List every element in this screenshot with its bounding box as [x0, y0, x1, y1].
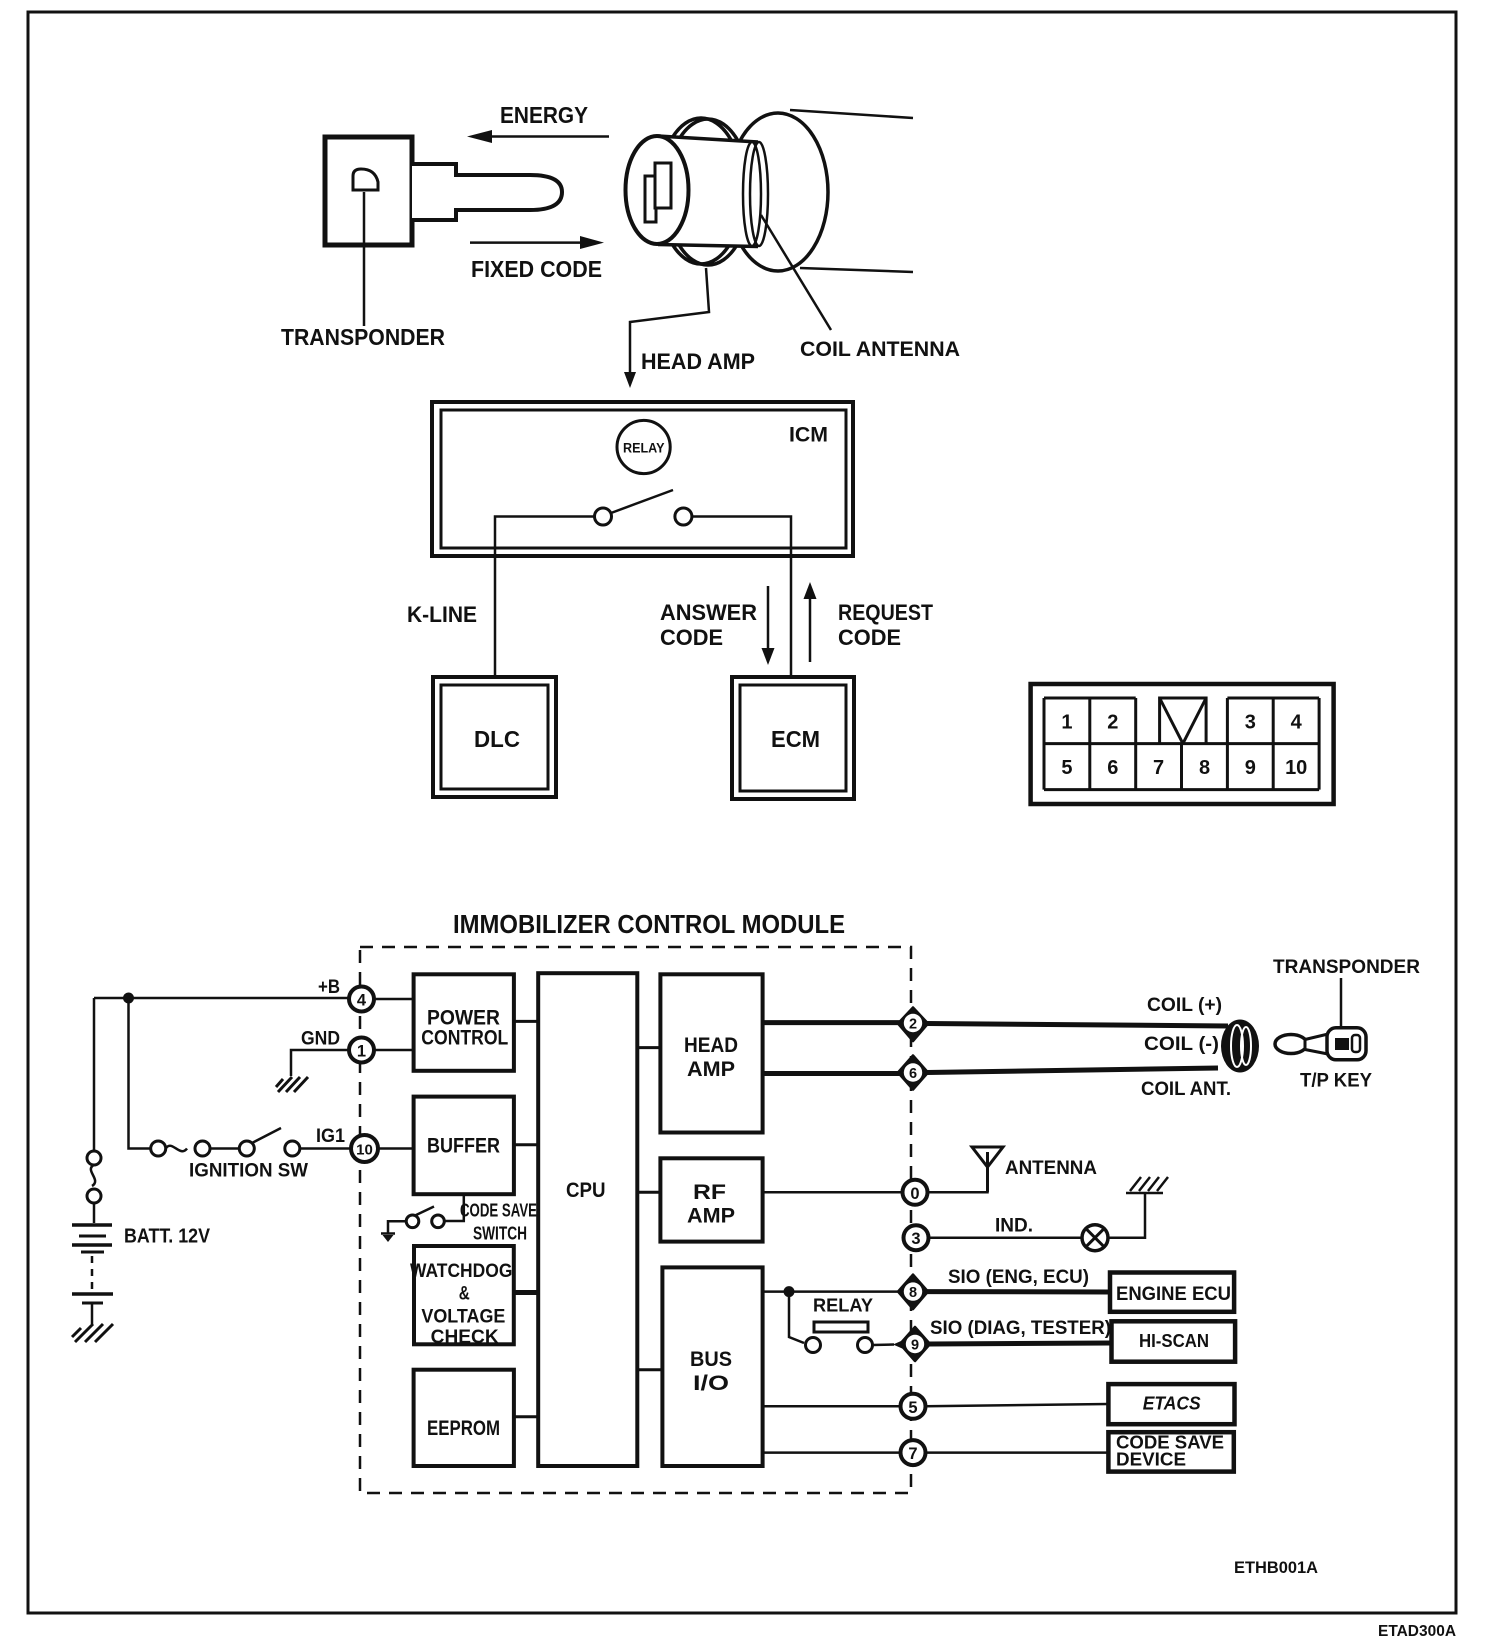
- svg-text:VOLTAGE: VOLTAGE: [421, 1307, 505, 1328]
- wire head amp to pin2: [763, 1020, 900, 1025]
- svg-text:REQUEST: REQUEST: [838, 600, 933, 625]
- wire bus io to pin7: [763, 1451, 901, 1454]
- svg-text:RF: RF: [693, 1181, 726, 1204]
- svg-text:COIL (-): COIL (-): [1144, 1033, 1219, 1055]
- svg-text:2: 2: [909, 1017, 917, 1033]
- svg-text:SIO (DIAG, TESTER): SIO (DIAG, TESTER): [930, 1318, 1111, 1339]
- svg-text:GND: GND: [301, 1028, 340, 1050]
- leader line coil antenna: [761, 215, 831, 330]
- svg-text:1: 1: [357, 1043, 366, 1061]
- wire coil antenna: [927, 1068, 1218, 1073]
- svg-text:HI-SCAN: HI-SCAN: [1139, 1331, 1209, 1351]
- svg-text:TRANSPONDER: TRANSPONDER: [281, 324, 445, 350]
- ground battery: [72, 1324, 113, 1342]
- svg-text:RELAY: RELAY: [623, 441, 665, 456]
- svg-text:IGNITION SW: IGNITION SW: [189, 1160, 309, 1182]
- svg-text:IG1: IG1: [316, 1125, 345, 1147]
- wire pin8 to engine ecu: [927, 1289, 1110, 1294]
- svg-text:6: 6: [909, 1066, 917, 1082]
- tp key: [1275, 1028, 1366, 1060]
- box ENGINE ECU: [1110, 1273, 1234, 1312]
- coil body: [1221, 1020, 1259, 1073]
- wire battery branch: [93, 998, 96, 1151]
- svg-text:0: 0: [910, 1185, 919, 1203]
- svg-text:I/O: I/O: [693, 1372, 729, 1395]
- wire pin10 to buffer: [378, 1147, 414, 1150]
- wire +B: [94, 997, 349, 1000]
- switch in ICM: [595, 490, 692, 525]
- svg-text:BUFFER: BUFFER: [427, 1135, 500, 1158]
- relay switch: [789, 1292, 908, 1353]
- svg-text:ETAD300A: ETAD300A: [1378, 1623, 1456, 1640]
- svg-text:+B: +B: [318, 976, 340, 998]
- block EEPROM: [414, 1370, 514, 1466]
- pin 4: [349, 987, 374, 1012]
- svg-text:4: 4: [1291, 712, 1303, 734]
- svg-text:ICM: ICM: [789, 424, 828, 447]
- svg-text:SWITCH: SWITCH: [473, 1224, 527, 1244]
- svg-text:CODE: CODE: [838, 625, 901, 650]
- transponder chip: [353, 169, 378, 190]
- connector keying notch: [1160, 698, 1207, 744]
- coil antenna ring: [659, 118, 750, 265]
- svg-text:ENERGY: ENERGY: [500, 102, 588, 128]
- key head (transponder key): [325, 137, 412, 245]
- ground indicator: [1126, 1177, 1168, 1193]
- wire buffer to cpu: [514, 1143, 538, 1146]
- arrow FIXED CODE: [470, 236, 604, 249]
- svg-text:TRANSPONDER: TRANSPONDER: [1273, 956, 1420, 978]
- pin 3: [904, 1225, 929, 1250]
- wire head amp to pin6: [763, 1071, 900, 1076]
- block BUS I/O: [662, 1267, 762, 1466]
- wire buffer to code save switch: [445, 1194, 464, 1221]
- junction relay node: [784, 1286, 795, 1297]
- ignition lock housing: [728, 110, 913, 272]
- svg-text:CODE SAVE: CODE SAVE: [460, 1201, 537, 1221]
- wire cpu to head amp: [637, 1046, 660, 1049]
- svg-text:DEVICE: DEVICE: [1116, 1450, 1186, 1470]
- svg-text:FIXED CODE: FIXED CODE: [471, 256, 602, 282]
- wire ignition branch: [129, 998, 152, 1149]
- svg-text:CODE: CODE: [660, 625, 723, 650]
- svg-text:1: 1: [1061, 712, 1072, 734]
- svg-text:WATCHDOG: WATCHDOG: [410, 1261, 512, 1282]
- svg-text:8: 8: [1199, 757, 1210, 779]
- fusible link: [87, 1151, 101, 1223]
- svg-text:2: 2: [1107, 712, 1118, 734]
- pin 9: [900, 1327, 930, 1361]
- wire bus io to pin5: [763, 1405, 901, 1408]
- svg-text:ENGINE ECU: ENGINE ECU: [1116, 1283, 1231, 1305]
- svg-text:BATT. 12V: BATT. 12V: [124, 1226, 211, 1248]
- pin 1: [349, 1038, 374, 1063]
- box HI-SCAN: [1112, 1321, 1236, 1361]
- svg-text:ETHB001A: ETHB001A: [1234, 1558, 1318, 1577]
- DLC box: [433, 677, 556, 797]
- svg-text:8: 8: [909, 1285, 917, 1301]
- svg-text:BUS: BUS: [690, 1348, 732, 1371]
- relay coil: [814, 1322, 868, 1332]
- wire cpu to rf amp: [637, 1191, 660, 1194]
- svg-text:EEPROM: EEPROM: [427, 1417, 500, 1440]
- svg-text:ECM: ECM: [771, 726, 820, 752]
- block CPU: [538, 973, 637, 1466]
- svg-text:COIL ANTENNA: COIL ANTENNA: [800, 337, 960, 361]
- box ETACS: [1108, 1384, 1234, 1424]
- pin 2: [898, 1008, 928, 1042]
- wire pin4 to power control: [374, 998, 414, 1001]
- svg-text:HEAD: HEAD: [684, 1034, 738, 1057]
- wire rf amp to pin0: [763, 1191, 903, 1194]
- block WATCHDOG VOLTAGE CHECK: [410, 1246, 514, 1348]
- wire coil plus: [927, 1024, 1228, 1027]
- leader line transponder: [363, 192, 366, 326]
- svg-text:SIO (ENG, ECU): SIO (ENG, ECU): [948, 1267, 1089, 1288]
- wire ICM to DLC: [495, 517, 595, 678]
- connector pin grid: [1044, 698, 1319, 790]
- svg-text:5: 5: [908, 1399, 917, 1417]
- block POWER CONTROL: [414, 974, 514, 1071]
- svg-text:CONTROL: CONTROL: [421, 1027, 508, 1050]
- box CODE SAVE DEVICE: [1108, 1432, 1233, 1471]
- antenna: [972, 1147, 1003, 1192]
- block HEAD AMP: [660, 974, 762, 1132]
- svg-text:ANSWER: ANSWER: [660, 600, 757, 625]
- svg-text:9: 9: [911, 1338, 919, 1354]
- svg-text:COIL (+): COIL (+): [1147, 994, 1222, 1016]
- arrow answer down: [762, 586, 775, 665]
- pin 8: [898, 1275, 928, 1309]
- junction battery node: [123, 993, 134, 1004]
- wire bus io to pin8: [763, 1290, 899, 1293]
- wire pin5 to etacs: [926, 1404, 1109, 1406]
- wire gnd: [291, 1050, 349, 1076]
- wire pin9 to hi-scan: [929, 1343, 1112, 1344]
- block RF AMP: [660, 1158, 762, 1241]
- svg-text:&: &: [459, 1284, 470, 1305]
- svg-text:IMMOBILIZER CONTROL MODULE: IMMOBILIZER CONTROL MODULE: [453, 909, 845, 939]
- svg-text:AMP: AMP: [687, 1205, 735, 1228]
- pin 6: [898, 1056, 928, 1090]
- pin 0: [903, 1180, 928, 1205]
- label REQUEST CODE: [838, 600, 933, 650]
- svg-text:3: 3: [1245, 712, 1256, 734]
- arrow ENERGY: [467, 130, 609, 143]
- svg-text:5: 5: [1061, 757, 1072, 779]
- pin 10: [351, 1135, 378, 1162]
- key shaft step: [412, 164, 562, 220]
- ignition switch: [151, 1128, 351, 1156]
- dashed module boundary: [360, 947, 911, 1493]
- ground gnd: [276, 1077, 308, 1092]
- svg-text:DLC: DLC: [474, 726, 520, 752]
- relay circle RELAY: [617, 420, 670, 473]
- svg-text:3: 3: [911, 1230, 920, 1248]
- svg-text:6: 6: [1107, 757, 1118, 779]
- svg-text:10: 10: [356, 1142, 373, 1159]
- lock cylinder body: [657, 136, 768, 247]
- lock face: [626, 136, 689, 244]
- leader arrow HEAD AMP: [624, 268, 709, 388]
- svg-text:RELAY: RELAY: [813, 1295, 874, 1316]
- wire pin0 to antenna: [928, 1166, 988, 1192]
- svg-text:K-LINE: K-LINE: [407, 602, 477, 627]
- svg-text:ANTENNA: ANTENNA: [1005, 1157, 1097, 1179]
- code save switch: [381, 1207, 444, 1243]
- wire pin3 to lamp: [929, 1236, 1083, 1239]
- wire pin1 to power control: [374, 1049, 414, 1052]
- svg-text:CHECK: CHECK: [431, 1327, 499, 1348]
- wire ICM to ECM: [692, 517, 791, 678]
- leader line tp key: [1340, 978, 1343, 1040]
- svg-text:T/P KEY: T/P KEY: [1300, 1071, 1372, 1092]
- wire power control to cpu: [514, 1020, 538, 1023]
- battery BATT. 12V: [72, 1225, 113, 1324]
- connector pin numbers: [1061, 712, 1307, 780]
- svg-text:4: 4: [357, 992, 367, 1010]
- block BUFFER: [414, 1097, 514, 1195]
- svg-text:7: 7: [908, 1445, 917, 1463]
- svg-text:AMP: AMP: [687, 1058, 735, 1081]
- svg-text:CPU: CPU: [566, 1178, 606, 1202]
- pin 7: [901, 1440, 926, 1465]
- wire pin7 to code save device: [926, 1451, 1109, 1454]
- indicator lamp: [1082, 1225, 1108, 1251]
- connector shell: [1031, 684, 1334, 804]
- svg-text:HEAD AMP: HEAD AMP: [641, 349, 755, 374]
- svg-text:10: 10: [1285, 757, 1307, 779]
- label CODE SAVE SWITCH: [460, 1201, 537, 1244]
- svg-text:COIL ANT.: COIL ANT.: [1141, 1078, 1231, 1100]
- wire cpu to bus io: [637, 1368, 662, 1371]
- wire watchdog to cpu: [514, 1290, 538, 1295]
- svg-text:7: 7: [1153, 757, 1164, 779]
- ICM box: [432, 402, 853, 556]
- svg-text:IND.: IND.: [995, 1215, 1033, 1237]
- svg-text:9: 9: [1245, 757, 1256, 779]
- wire lamp to ground: [1108, 1193, 1145, 1238]
- svg-text:ETACS: ETACS: [1143, 1394, 1201, 1414]
- label ANSWER CODE: [660, 600, 757, 650]
- pin 5: [901, 1394, 926, 1419]
- arrow request up: [804, 582, 817, 662]
- wire eeprom to cpu: [514, 1415, 538, 1418]
- ECM box: [732, 677, 854, 799]
